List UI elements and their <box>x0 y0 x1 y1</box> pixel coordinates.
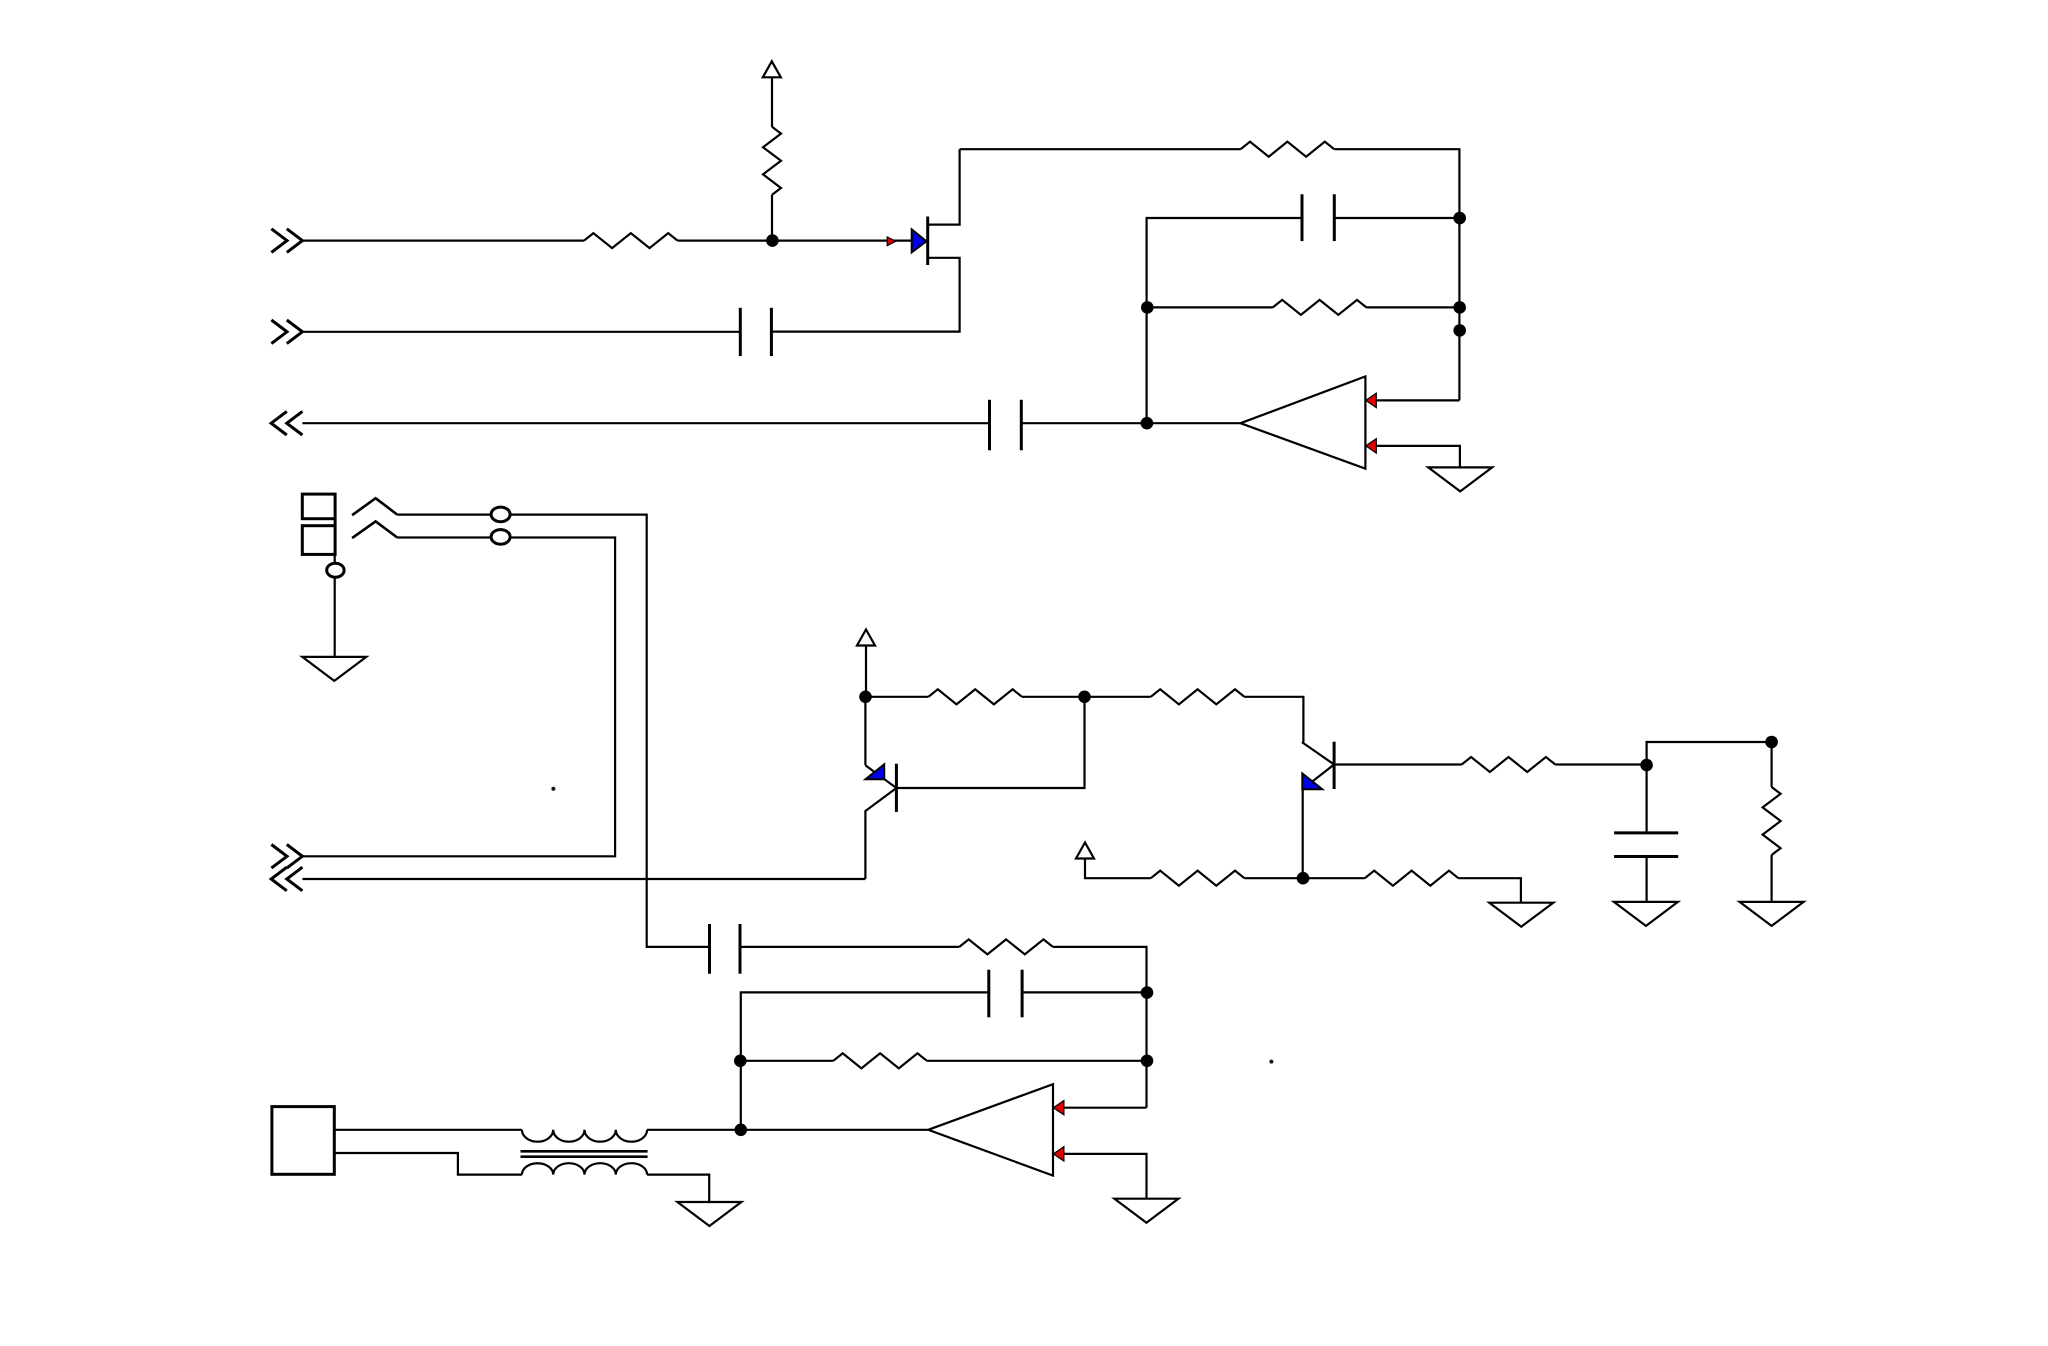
resistor R4 (op-amp feedback) <box>1273 300 1367 315</box>
node N junction (R12 left) <box>734 1055 747 1068</box>
capacitor C3 plates <box>1302 194 1334 241</box>
resistor R3 (feedback top) <box>1241 142 1335 157</box>
red input arrow at Q3 gate <box>887 237 896 246</box>
capacitor C1 <box>740 308 771 356</box>
wire IN1 to R1 <box>302 240 584 242</box>
wire R5 to node H <box>1022 696 1085 698</box>
node K junction (Q2 emitter) <box>1297 872 1310 885</box>
wire R3 to right rail <box>1334 149 1459 400</box>
transistor Q2 blue arrow <box>1302 774 1322 790</box>
capacitor C2 <box>990 400 1022 451</box>
wire U1 upper input to node D <box>1376 399 1459 401</box>
jack J1 tip contact square <box>302 494 335 519</box>
wire sleeve to ground <box>334 577 336 657</box>
node B junction (C3 right) <box>1453 212 1466 225</box>
wire jack sleeve down <box>334 554 336 563</box>
wire U1 lower input to ground <box>1376 446 1460 468</box>
capacitor C6 plates <box>989 970 1022 1018</box>
wire U2 output to transformer <box>647 1129 928 1131</box>
node J junction <box>1765 736 1778 749</box>
ground G4 <box>1489 903 1553 927</box>
node H junction <box>1078 691 1091 704</box>
transistor Q2 collector diagonal <box>1302 742 1334 764</box>
ground G5 <box>677 1202 741 1226</box>
output connector OUT2 (<<) <box>271 867 302 891</box>
op-amp U2 (left-pointing triangle) <box>928 1084 1053 1175</box>
node L junction (C6 right) <box>1141 986 1154 999</box>
wire node J to R10 <box>1770 742 1772 787</box>
wire node I up and right to node J <box>1647 742 1772 765</box>
wire drain to R3 <box>960 148 1241 150</box>
resistor R1 <box>584 233 678 248</box>
wire R6 to Q2 collector <box>1244 697 1303 742</box>
wire node H to R6 <box>1085 696 1151 698</box>
node O junction (output node) <box>735 1124 748 1137</box>
wire VCC2 to node G <box>865 646 867 697</box>
transistor Q1 blue arrow <box>866 764 885 779</box>
wire gate node up to R2 <box>771 195 773 241</box>
node A junction (gate node) <box>766 234 779 247</box>
power symbol VCC3 <box>1076 843 1094 859</box>
wire secondary to ground <box>647 1175 709 1202</box>
input connector IN2 (>>) <box>271 320 302 344</box>
wire C6 right to node L <box>1022 991 1146 993</box>
wire OUT2 to Q1 emitter <box>302 878 865 880</box>
resistor R7 <box>1462 757 1556 772</box>
transformer T1 core lines <box>521 1150 648 1153</box>
wire C5 to R11 <box>740 946 959 948</box>
op-amp U1 inverting input red arrow <box>1366 393 1377 407</box>
wire C3 right to node B <box>1334 217 1459 219</box>
ground G2 <box>302 657 366 681</box>
jack J1 ring contact square <box>302 526 335 555</box>
wire node G to R5 <box>866 696 929 698</box>
wire C4 to ground <box>1645 857 1647 902</box>
resistor R5 <box>928 689 1022 704</box>
wire IN2 to C1 <box>302 331 740 333</box>
power symbol VCC2 <box>857 630 875 646</box>
resistor R11 <box>959 939 1053 954</box>
wire Q2 base to R7 <box>1334 763 1462 765</box>
transistor Q2 base bar <box>1333 742 1336 789</box>
resistor R6 <box>1151 689 1245 704</box>
jack J1 switch lever 1 <box>352 498 397 515</box>
wire OUT1 to C2 <box>302 422 989 424</box>
wire R4 to node C <box>1366 306 1459 308</box>
jack contact ellipse 1 <box>491 507 510 522</box>
wire node E to R4 <box>1147 306 1273 308</box>
stray dot artifact 1 <box>551 787 555 791</box>
wire R10 to ground <box>1770 855 1772 902</box>
transistor Q3 gate bar <box>926 217 929 266</box>
ground G1 <box>1428 467 1492 491</box>
wire U2 lower input to ground <box>1064 1154 1147 1199</box>
wire box to transformer secondary <box>334 1153 522 1175</box>
input connector IN1 (>>) <box>271 229 302 253</box>
wire upper input U2 <box>1064 1107 1147 1109</box>
resistor R12 (op-amp U2 feedback) <box>833 1053 927 1068</box>
wire switch line 2 to IN3 <box>302 538 615 857</box>
wire node K to R9 <box>1303 877 1365 879</box>
op-amp U2 non-inverting input red arrow <box>1053 1147 1064 1161</box>
wire R7 to node I <box>1555 763 1646 765</box>
power symbol VCC1 <box>763 61 781 77</box>
stray dot artifact 2 <box>1269 1060 1273 1064</box>
capacitor C5 plates <box>710 924 741 974</box>
output connector OUT1 (<<) <box>271 411 302 435</box>
node G junction <box>859 691 872 704</box>
node M junction (R12 right) <box>1141 1055 1154 1068</box>
input connector IN3 (>>) <box>271 845 302 869</box>
connector P1 box <box>272 1107 334 1175</box>
transistor Q1 base bar <box>895 764 898 812</box>
wire R2 to VCC <box>771 77 773 127</box>
wire C3 left to mid rail <box>1147 218 1302 423</box>
transistor Q2 emitter diagonal <box>1303 765 1334 879</box>
transistor Q1 collector diagonal <box>865 765 896 788</box>
node E junction (R4 left) <box>1141 301 1154 314</box>
ground G6 <box>1614 902 1678 926</box>
resistor R2 (vertical pull-up) <box>763 127 781 195</box>
wire C2 to op-amp U1 output <box>1021 422 1240 424</box>
wire VCC3 to R8 <box>1085 859 1151 879</box>
jack contact ellipse 2 <box>491 530 510 545</box>
node D junction (below R4 right) <box>1453 324 1466 337</box>
wire R11 to right rail <box>1053 947 1147 1108</box>
wire R1 to gate node <box>678 240 912 242</box>
capacitor C4 plates <box>1614 833 1678 857</box>
resistor R10 (vertical) <box>1763 787 1781 855</box>
jack J1 body edge <box>334 519 337 526</box>
resistor R9 <box>1365 871 1459 886</box>
transformer T1 secondary winding <box>522 1163 647 1174</box>
wire switch line 1 to C5 <box>397 515 709 947</box>
transistor Q3 drain pin <box>928 149 960 224</box>
node F junction (U1 output node) <box>1141 417 1154 430</box>
wire node N to R12 <box>741 1060 834 1062</box>
ground G7 <box>1740 902 1804 926</box>
transistor Q3 (MOSFET) blue gate arrow <box>912 229 927 252</box>
op-amp U2 inverting input red arrow <box>1053 1101 1064 1115</box>
node I junction <box>1640 759 1653 772</box>
node C junction (R4 right) <box>1453 301 1466 314</box>
wire node I to C4 <box>1645 765 1647 833</box>
wire R8 to node K <box>1244 877 1303 879</box>
op-amp U1 (left-pointing triangle) <box>1241 376 1366 468</box>
transistor Q1 emitter diagonal <box>865 788 896 879</box>
resistor R8 <box>1151 871 1245 886</box>
transformer T1 primary winding <box>522 1130 647 1142</box>
transistor Q3 source pin <box>771 258 959 332</box>
wire Q1 base to node H <box>896 697 1084 788</box>
wire R9 to ground <box>1458 878 1521 903</box>
wire C6 left to feedback rail <box>741 992 989 1129</box>
jack J1 switch lever 2 <box>352 521 397 538</box>
transistor Q1 collector wire <box>864 697 866 766</box>
op-amp U1 non-inverting input red arrow <box>1366 439 1377 453</box>
jack J1 sleeve contact circle <box>327 563 344 577</box>
ground G3 <box>1114 1199 1178 1223</box>
wire box to transformer primary <box>334 1129 522 1131</box>
wire R12 to node M <box>927 1060 1147 1062</box>
